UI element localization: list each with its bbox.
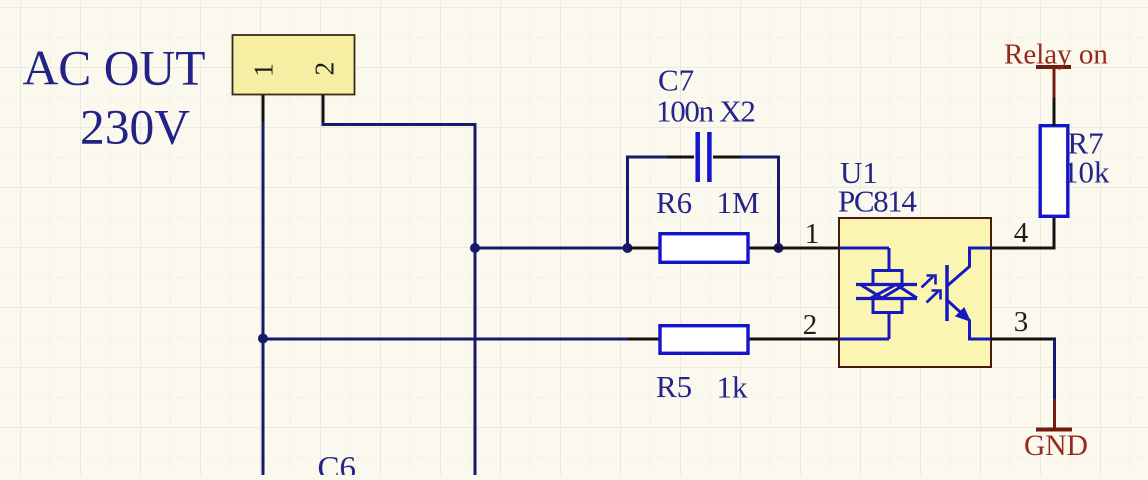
svg-text:3: 3 (1014, 306, 1029, 338)
svg-text:C7: C7 (658, 63, 694, 98)
svg-text:100n X2: 100n X2 (656, 93, 755, 128)
connector pin 1 stub (262, 95, 265, 124)
svg-text:10k: 10k (1063, 155, 1110, 190)
svg-text:Relay on: Relay on (1004, 39, 1108, 71)
junction dot at (778,248) (774, 243, 784, 253)
capacitor C7 plates (695, 132, 700, 182)
junction dot at (263,338) (258, 334, 268, 344)
capacitor C7 pins (667, 156, 694, 159)
pin 3 wire from U1 (991, 338, 1056, 341)
connector J (AC OUT) body (233, 35, 355, 95)
resistor R5 body (660, 326, 748, 354)
wire: C7 branch left vertical (628, 157, 669, 248)
svg-text:1M: 1M (717, 185, 760, 220)
wire: pin2 down/right/down to bottom (323, 122, 475, 475)
junction dot at (475,248) (470, 243, 480, 253)
svg-text:1: 1 (248, 63, 279, 77)
U1 internal LED pair (840, 248, 917, 339)
wire: R6 row horizontal from x475 junction (475, 247, 632, 250)
pin 4 wire from U1 to R7 (991, 218, 1054, 248)
U1 light arrows (922, 276, 941, 303)
resistor R7 top pin (1053, 96, 1056, 126)
resistor R5 pins (628, 338, 662, 341)
resistor R6 pins (630, 247, 662, 250)
svg-text:2: 2 (803, 309, 818, 341)
svg-text:PC814: PC814 (838, 184, 917, 219)
resistor R7 body (1040, 126, 1068, 217)
wire: C7 branch right vertical (739, 157, 779, 248)
svg-text:4: 4 (1014, 217, 1029, 249)
ground symbol (1053, 399, 1056, 429)
text label AC OUT 230V (23, 40, 206, 154)
wire/pin from R6 to U1 pin 1 (781, 247, 840, 250)
wire pin3 to GND (1053, 339, 1056, 401)
optocoupler U1 body (839, 218, 991, 367)
connector pin 2 stub (322, 95, 325, 124)
svg-text:1: 1 (805, 218, 820, 250)
svg-text:230V: 230V (80, 99, 190, 154)
svg-text:2: 2 (309, 62, 340, 76)
resistor R6 body (660, 234, 748, 263)
svg-text:C6: C6 (318, 451, 357, 475)
svg-text:AC OUT: AC OUT (23, 40, 206, 95)
U1 emitter arrowhead (957, 309, 969, 320)
svg-text:R5: R5 (656, 369, 692, 404)
wire: pin1 vertical to bottom (262, 122, 265, 475)
U1 phototransistor collector/emitter (947, 248, 991, 339)
U1 phototransistor base bar (945, 265, 949, 321)
junction dot at (627,248) (623, 243, 633, 253)
svg-text:GND: GND (1024, 430, 1088, 462)
power port Relay on (1036, 65, 1071, 69)
wire: R5 row horizontal from junction (263, 338, 630, 341)
svg-text:R6: R6 (656, 185, 692, 220)
svg-text:1k: 1k (717, 370, 749, 405)
